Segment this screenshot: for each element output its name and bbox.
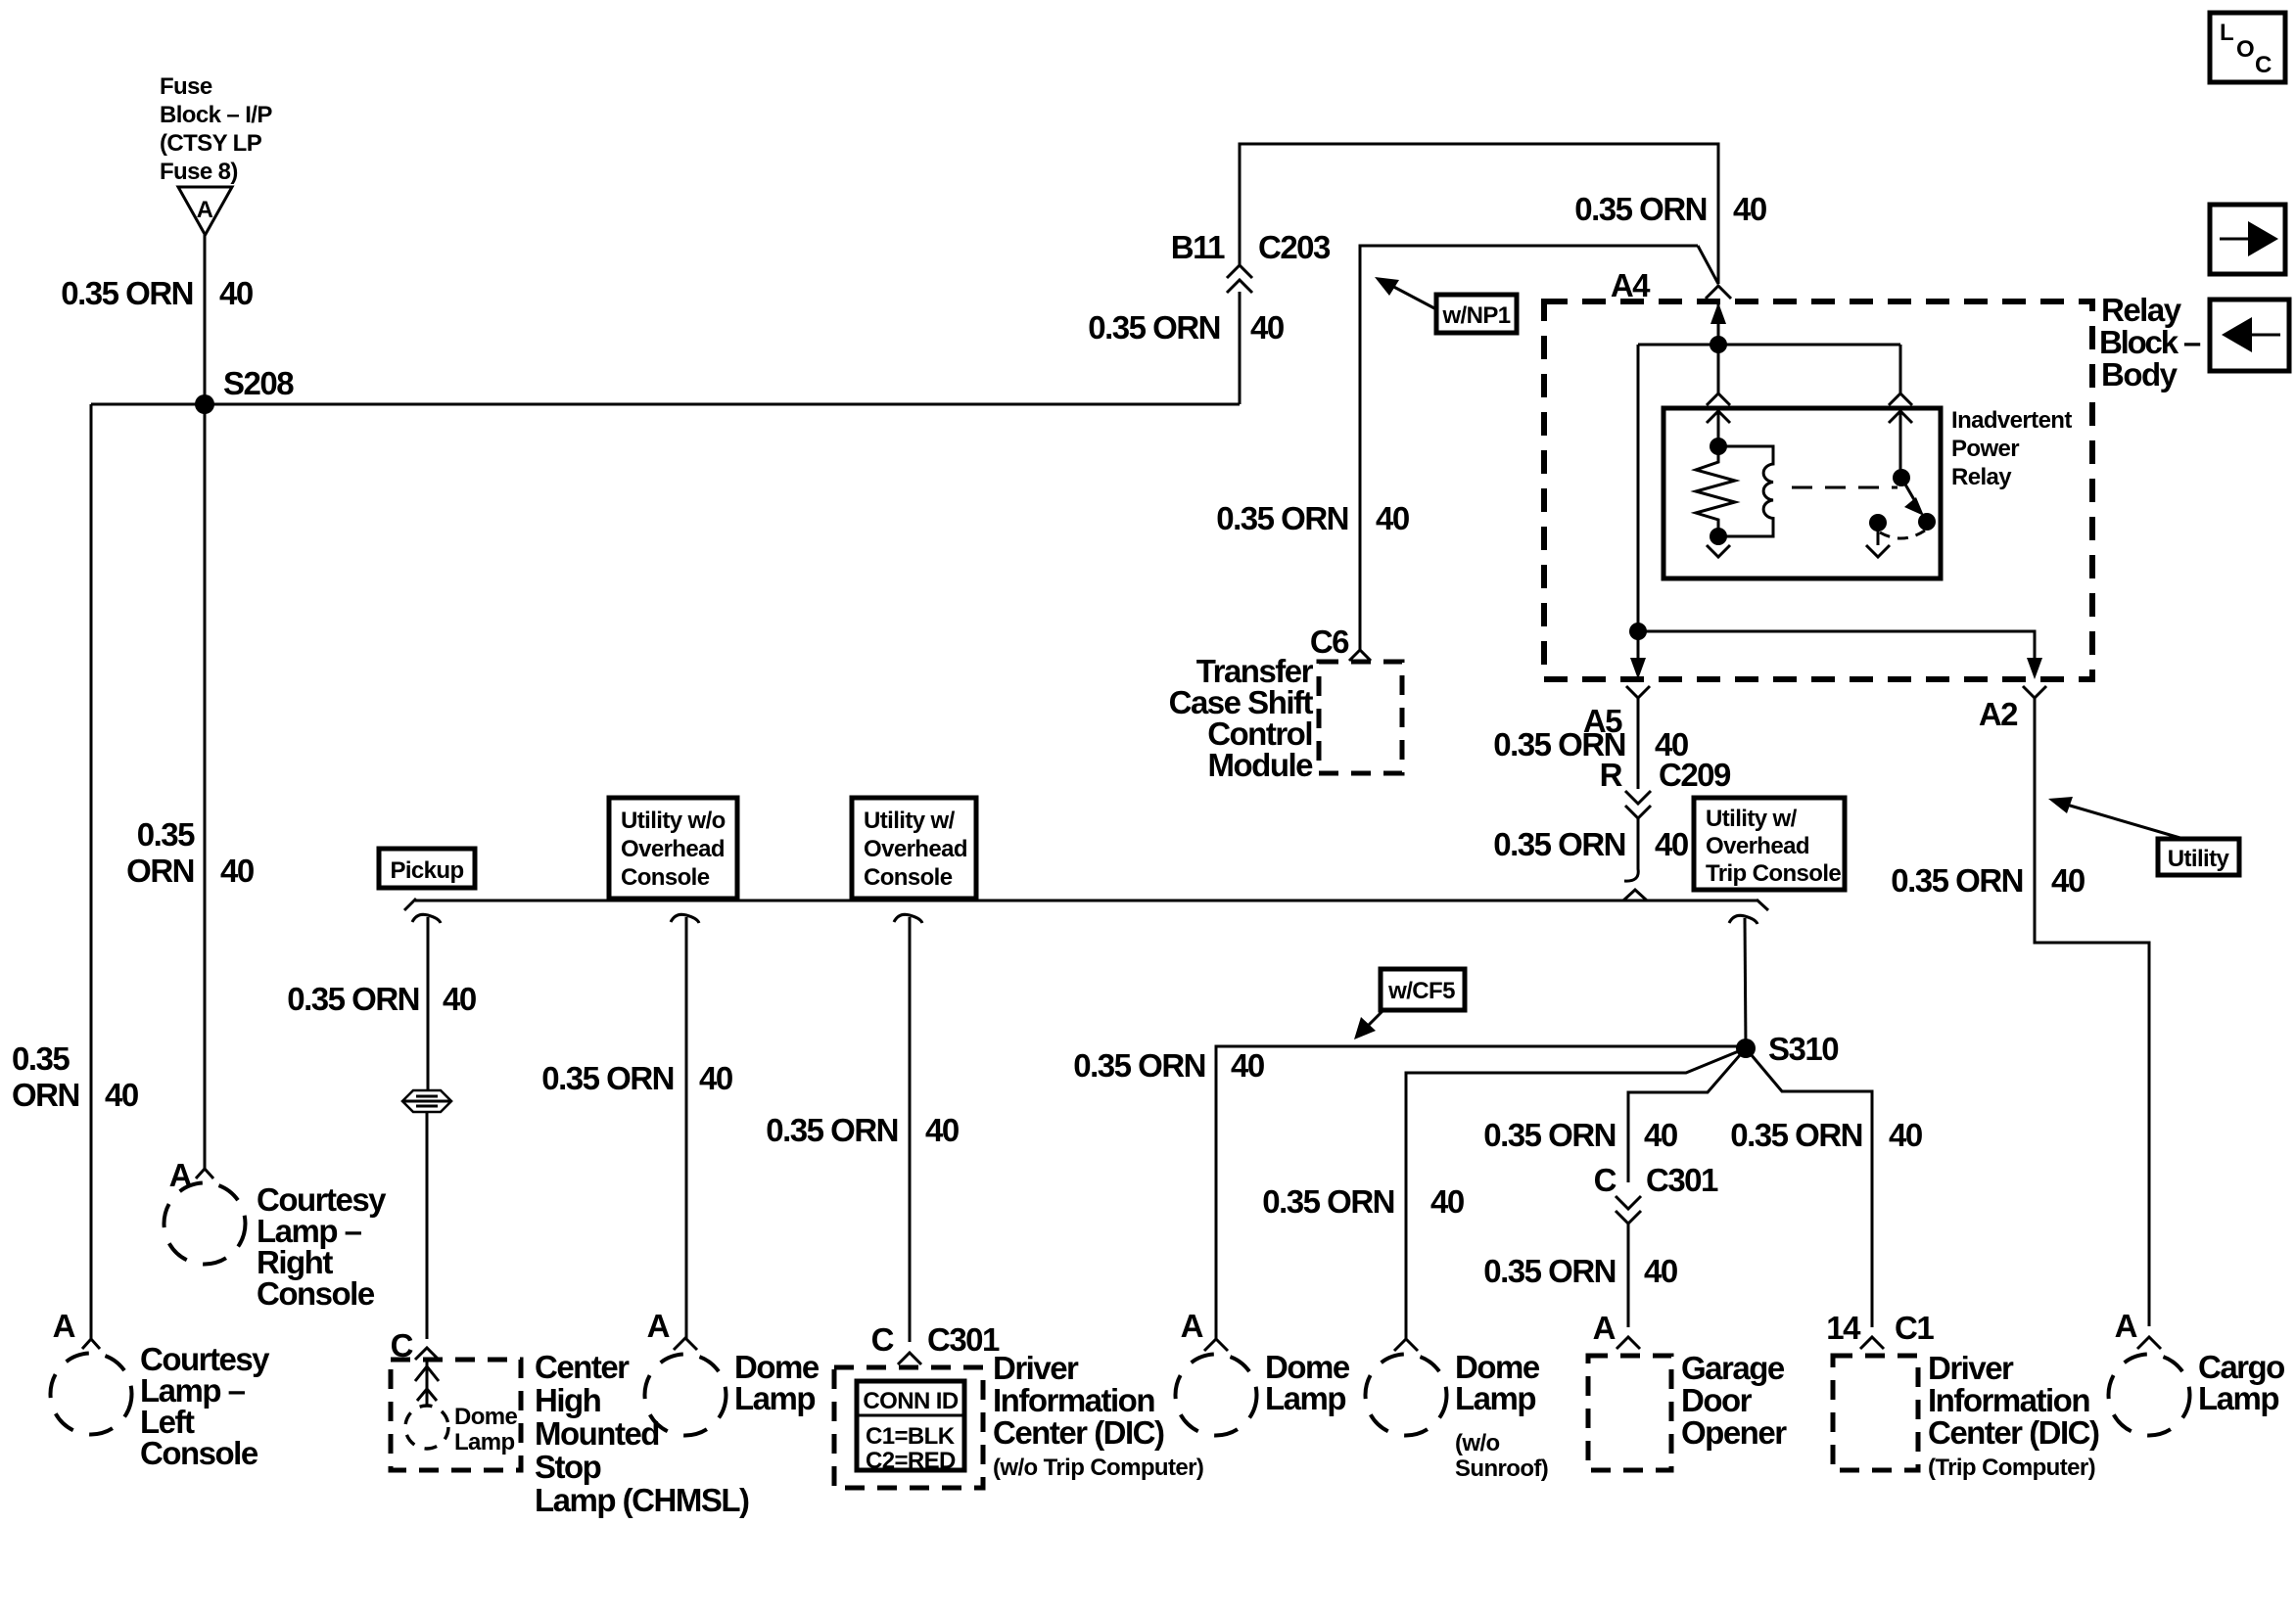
wire relay block internal tee xyxy=(1638,344,1900,346)
svg-text:Module: Module xyxy=(1208,747,1314,783)
splice S208 xyxy=(195,365,294,414)
svg-text:40: 40 xyxy=(925,1112,959,1148)
relay block - body label xyxy=(2099,292,2201,393)
svg-text:0.35: 0.35 xyxy=(12,1040,70,1077)
svg-text:Utility w/o: Utility w/o xyxy=(621,808,726,834)
wire S310 to dome lamp w/o sunroof xyxy=(1406,1048,1746,1339)
svg-text:A2: A2 xyxy=(1979,696,2018,732)
svg-text:Sunroof): Sunroof) xyxy=(1455,1455,1548,1482)
connector chevron dome lamp xyxy=(674,1338,697,1350)
svg-text:C: C xyxy=(1594,1162,1617,1198)
svg-text:40: 40 xyxy=(1231,1047,1264,1084)
wire switch feed down xyxy=(1899,345,1902,394)
svg-text:C1: C1 xyxy=(1895,1310,1934,1346)
label 0.35 ORN 40 (w/CF5 branch) xyxy=(1073,1047,1264,1084)
LOC page symbol box xyxy=(2210,13,2285,82)
wire pickup drop lower xyxy=(426,1112,429,1339)
wire lower junction to A2 drop xyxy=(1638,631,2035,675)
svg-text:Center (DIC): Center (DIC) xyxy=(1928,1414,2099,1451)
label 0.35 ORN 40 (C6 wire) xyxy=(1216,500,1409,536)
svg-text:Information: Information xyxy=(1928,1382,2089,1418)
transfer case shift control module (dashed box) xyxy=(1319,662,1402,773)
wire S208 to courtesy lamp right xyxy=(204,404,207,1169)
garage door opener label xyxy=(1681,1350,1787,1451)
connector C301 (double chevron) xyxy=(1616,1196,1641,1224)
svg-text:40: 40 xyxy=(1376,500,1409,536)
label 0.35 ORN 40 (DIC trip computer branch) xyxy=(1730,1117,1922,1153)
svg-text:Center (DIC): Center (DIC) xyxy=(993,1414,1164,1451)
wire left branch down to lower junction xyxy=(1637,345,1640,631)
svg-text:0.35 ORN: 0.35 ORN xyxy=(287,981,419,1017)
inadvertent power relay (solid box) xyxy=(1663,408,1941,578)
inline splice sleeve symbol xyxy=(402,1090,451,1112)
svg-text:0.35 ORN: 0.35 ORN xyxy=(1483,1117,1616,1153)
svg-text:Dome: Dome xyxy=(454,1404,518,1430)
svg-text:C: C xyxy=(871,1321,894,1358)
transfer case shift control module label xyxy=(1169,653,1314,783)
svg-text:40: 40 xyxy=(219,275,253,311)
svg-text:0.35 ORN: 0.35 ORN xyxy=(1073,1047,1205,1084)
dome lamp 3 label xyxy=(1455,1349,1548,1482)
DIC w/o trip computer dashed box xyxy=(834,1367,983,1488)
w/NP1 callout box xyxy=(1436,295,1517,333)
junction node inside relay block xyxy=(1710,336,1727,353)
courtesy lamp right console label xyxy=(257,1181,387,1312)
svg-text:Information: Information xyxy=(993,1382,1154,1418)
utility w/ overhead trip console box xyxy=(1694,798,1845,890)
svg-text:C: C xyxy=(2255,52,2272,78)
svg-text:40: 40 xyxy=(443,981,476,1017)
svg-text:A: A xyxy=(197,197,213,223)
wire C203 up and across top xyxy=(1240,144,1718,284)
svg-text:Lamp: Lamp xyxy=(1455,1380,1535,1416)
inadvertent power relay label xyxy=(1951,407,2072,490)
svg-text:Overhead: Overhead xyxy=(864,836,967,862)
svg-text:Opener: Opener xyxy=(1681,1414,1787,1451)
wire dome lamp drop xyxy=(685,917,688,1339)
svg-text:Lamp: Lamp xyxy=(1265,1380,1345,1416)
svg-text:S310: S310 xyxy=(1768,1031,1838,1067)
hook pickup drop xyxy=(412,914,441,923)
svg-text:Overhead: Overhead xyxy=(621,836,725,862)
svg-text:(w/o: (w/o xyxy=(1455,1430,1500,1456)
svg-text:High: High xyxy=(535,1382,601,1418)
CHMSL internal lead with chevrons xyxy=(415,1362,439,1407)
label 0.35 ORN 40 (C301 upper) xyxy=(1483,1117,1677,1153)
svg-text:40: 40 xyxy=(220,853,254,889)
splice S310 xyxy=(1736,1031,1838,1067)
relay switch pivot node xyxy=(1893,469,1910,486)
svg-text:0.35 ORN: 0.35 ORN xyxy=(1493,826,1625,862)
label 0.35 ORN 40 (w/o sunroof branch) xyxy=(1262,1183,1464,1220)
connector chevron dome lamp 3 xyxy=(1394,1339,1418,1351)
CHMSL internal dome lamp label xyxy=(454,1404,518,1455)
relay block - body (dashed outline) xyxy=(1544,301,2092,679)
svg-text:40: 40 xyxy=(1430,1183,1464,1220)
DIC trip computer label xyxy=(1928,1350,2099,1481)
wire pickup drop upper xyxy=(427,917,430,1090)
svg-text:Fuse 8): Fuse 8) xyxy=(160,159,238,185)
svg-text:C301: C301 xyxy=(1646,1162,1718,1198)
label 0.35 ORN 40 (S208 lower wire) xyxy=(126,816,254,889)
connector chevron DIC xyxy=(898,1353,921,1364)
w/CF5 pointer arrow xyxy=(1354,1010,1383,1039)
svg-text:Console: Console xyxy=(864,864,953,891)
svg-text:C1=BLK: C1=BLK xyxy=(866,1423,956,1450)
svg-text:40: 40 xyxy=(1644,1253,1677,1289)
courtesy lamp left console label xyxy=(140,1341,270,1471)
svg-text:Block –: Block – xyxy=(2099,324,2201,360)
garage door opener dashed box xyxy=(1588,1356,1671,1470)
connector chevron DIC trip computer xyxy=(1860,1337,1884,1349)
svg-text:ORN: ORN xyxy=(126,853,194,889)
label 0.35 ORN 40 (top right wire) xyxy=(1574,191,1766,227)
connector chevron above relay box left xyxy=(1707,393,1730,405)
svg-text:Mounted: Mounted xyxy=(535,1415,659,1452)
wire S208 horizontal xyxy=(91,403,1240,406)
svg-text:Power: Power xyxy=(1951,436,2019,462)
label 0.35 ORN 40 (pickup drop) xyxy=(287,981,476,1017)
junction node at A5 xyxy=(1629,623,1647,640)
wire A5 to C209 xyxy=(1637,698,1640,789)
relay actuator dashed link xyxy=(1792,486,1898,489)
wire A4 into relay block xyxy=(1717,299,1720,345)
dome lamp label xyxy=(734,1349,820,1416)
pickup option box xyxy=(379,849,475,888)
svg-text:A: A xyxy=(647,1308,670,1344)
svg-text:A: A xyxy=(2115,1308,2137,1344)
svg-text:Garage: Garage xyxy=(1681,1350,1785,1386)
DIC w/o trip computer label xyxy=(993,1350,1203,1481)
svg-text:0.35 ORN: 0.35 ORN xyxy=(1262,1183,1394,1220)
label 0.35 ORN 40 (A5 wire) xyxy=(1493,726,1688,762)
svg-text:40: 40 xyxy=(1733,191,1766,227)
label 0.35 ORN 40 (dome lamp drop) xyxy=(541,1060,732,1096)
svg-text:40: 40 xyxy=(1250,309,1284,346)
svg-text:C301: C301 xyxy=(927,1321,1000,1358)
svg-text:0.35 ORN: 0.35 ORN xyxy=(1730,1117,1862,1153)
CONN ID table xyxy=(857,1381,964,1474)
svg-text:Overhead: Overhead xyxy=(1706,833,1809,859)
svg-text:Console: Console xyxy=(257,1275,375,1312)
hook dome lamp drop xyxy=(671,914,699,923)
svg-text:0.35 ORN: 0.35 ORN xyxy=(541,1060,674,1096)
wire A2 to cargo lamp xyxy=(2035,698,2149,1326)
svg-text:A: A xyxy=(1593,1310,1616,1346)
label 0.35 ORN 40 (DIC drop) xyxy=(766,1112,959,1148)
relay switch throw node xyxy=(1918,513,1936,531)
svg-text:Lamp (CHMSL): Lamp (CHMSL) xyxy=(535,1482,749,1518)
svg-text:0.35 ORN: 0.35 ORN xyxy=(1088,309,1220,346)
harness bus wire xyxy=(415,900,1757,902)
svg-text:Pickup: Pickup xyxy=(390,857,463,884)
connector chevron at courtesy lamp left xyxy=(82,1339,100,1349)
wire S310 to dome lamp A (w/CF5 branch) xyxy=(1216,1046,1746,1339)
connector C209 (double chevron) xyxy=(1625,791,1651,818)
utility callout box xyxy=(2158,839,2239,875)
svg-text:(Trip Computer): (Trip Computer) xyxy=(1928,1455,2095,1481)
dome lamp 2 label xyxy=(1265,1349,1350,1416)
svg-text:CONN ID: CONN ID xyxy=(863,1388,958,1414)
svg-text:A4: A4 xyxy=(1611,267,1651,303)
connector chevron at courtesy lamp right xyxy=(196,1169,213,1178)
svg-text:A: A xyxy=(53,1308,75,1344)
label 0.35 ORN 40 (C301 lower) xyxy=(1483,1253,1677,1289)
utility w/ overhead console option box xyxy=(852,798,976,899)
relay switch contact dashed arc xyxy=(1880,531,1925,538)
svg-text:Relay: Relay xyxy=(2101,292,2182,328)
label 0.35 ORN 40 (fuse wire) xyxy=(61,275,253,311)
wire S208 to courtesy lamp left xyxy=(90,404,93,1339)
relay coil bottom node xyxy=(1710,528,1727,545)
relay switch: common leg with chevron xyxy=(1889,408,1912,477)
svg-text:0.35 ORN: 0.35 ORN xyxy=(61,275,193,311)
svg-text:ORN: ORN xyxy=(12,1077,79,1113)
arrow box left xyxy=(2210,300,2289,371)
svg-text:Console: Console xyxy=(621,864,710,891)
hook S310 riser xyxy=(1729,915,1757,924)
svg-text:Door: Door xyxy=(1681,1382,1753,1418)
svg-text:0.35: 0.35 xyxy=(137,816,195,853)
svg-text:C6: C6 xyxy=(1310,624,1349,660)
connector chevron A2 xyxy=(2023,686,2046,698)
hook DIC drop xyxy=(894,914,922,923)
wire C301 to garage door opener xyxy=(1627,1224,1630,1327)
svg-text:Body: Body xyxy=(2101,356,2179,393)
svg-text:Utility w/: Utility w/ xyxy=(1706,806,1798,832)
dome lamp 2 (dashed circle) xyxy=(1176,1355,1257,1436)
svg-text:Driver: Driver xyxy=(1928,1350,2014,1386)
dome lamp 3 (dashed circle) xyxy=(1366,1355,1447,1436)
svg-text:O: O xyxy=(2236,36,2255,63)
connector chevron garage door opener xyxy=(1617,1337,1640,1349)
bus caret under C209 wire xyxy=(1623,890,1647,901)
svg-text:40: 40 xyxy=(699,1060,732,1096)
relay switch blade with arrowhead xyxy=(1901,478,1924,516)
wire S310 to DIC trip computer xyxy=(1746,1048,1872,1327)
connector chevron dome lamp 2 xyxy=(1204,1339,1228,1351)
resistor R (zigzag) xyxy=(1696,446,1735,536)
svg-text:w/NP1: w/NP1 xyxy=(1441,302,1510,329)
relay coil leg with chevron xyxy=(1707,408,1730,446)
w/NP1 pointer arrow xyxy=(1375,277,1436,309)
relay coil (inductor) xyxy=(1718,446,1773,536)
svg-text:Block – I/P: Block – I/P xyxy=(160,102,272,128)
svg-text:Lamp: Lamp xyxy=(734,1380,815,1416)
fuse block feed symbol A (triangle) xyxy=(178,187,232,235)
svg-text:S208: S208 xyxy=(223,365,294,401)
svg-text:0.35 ORN: 0.35 ORN xyxy=(1483,1253,1616,1289)
CHMSL label xyxy=(535,1349,749,1518)
svg-text:Inadvertent: Inadvertent xyxy=(1951,407,2072,434)
wire riser to B11 xyxy=(1239,292,1242,404)
wire coil feed down xyxy=(1717,345,1720,394)
wire C209 to bus with hook xyxy=(1624,818,1638,881)
wire bus to S310 xyxy=(1745,918,1746,1048)
CHMSL internal dome lamp (small dashed circle) xyxy=(405,1406,448,1449)
svg-text:Stop: Stop xyxy=(535,1449,601,1485)
svg-text:40: 40 xyxy=(1655,826,1688,862)
svg-text:C203: C203 xyxy=(1258,229,1331,265)
svg-text:40: 40 xyxy=(1889,1117,1922,1153)
connector chevron CHMSL xyxy=(415,1348,439,1360)
courtesy lamp left console (dashed circle) xyxy=(51,1354,132,1435)
arrowhead down at A2 border crossing xyxy=(2027,658,2042,679)
svg-text:0.35 ORN: 0.35 ORN xyxy=(1891,862,2023,899)
label 0.35 ORN 40 (C209 wire) xyxy=(1493,826,1688,862)
fuse block label xyxy=(160,73,272,185)
svg-text:14: 14 xyxy=(1826,1310,1861,1346)
relay coil top node xyxy=(1710,438,1727,455)
svg-text:Utility: Utility xyxy=(2168,846,2230,872)
svg-text:R: R xyxy=(1600,757,1623,793)
w/CF5 callout box xyxy=(1381,969,1465,1010)
wire C203 branch to C6 xyxy=(1360,246,1698,650)
svg-text:Utility w/: Utility w/ xyxy=(864,808,956,834)
utility pointer arrow xyxy=(2048,797,2183,839)
svg-text:40: 40 xyxy=(105,1077,138,1113)
svg-text:Relay: Relay xyxy=(1951,464,2012,490)
svg-text:Lamp: Lamp xyxy=(2198,1380,2278,1416)
arrow box right xyxy=(2210,205,2285,274)
svg-text:0.35 ORN: 0.35 ORN xyxy=(1574,191,1707,227)
svg-text:Console: Console xyxy=(140,1435,258,1471)
svg-text:Center: Center xyxy=(535,1349,630,1385)
wire diagonal jog into A4 xyxy=(1698,246,1718,284)
relay switch output leg with chevron xyxy=(1866,523,1890,557)
dome lamp (dashed circle) xyxy=(645,1355,726,1436)
svg-text:40: 40 xyxy=(2051,862,2085,899)
CHMSL dashed box xyxy=(391,1360,521,1470)
DIC trip computer dashed box xyxy=(1833,1356,1918,1470)
svg-text:Lamp: Lamp xyxy=(454,1429,515,1455)
wire A5 drop with arrowhead xyxy=(1630,631,1646,679)
utility w/o overhead console option box xyxy=(609,798,737,899)
svg-text:(CTSY LP: (CTSY LP xyxy=(160,130,262,157)
svg-text:Trip Console: Trip Console xyxy=(1706,860,1841,887)
svg-text:(w/o Trip Computer): (w/o Trip Computer) xyxy=(993,1455,1203,1481)
svg-text:C209: C209 xyxy=(1659,757,1731,793)
label 0.35 ORN 40 (B11 riser) xyxy=(1088,309,1284,346)
svg-text:0.35 ORN: 0.35 ORN xyxy=(766,1112,898,1148)
svg-text:L: L xyxy=(2220,20,2234,46)
relay coil leg: bottom chevron xyxy=(1707,536,1730,557)
svg-text:A: A xyxy=(1181,1308,1203,1344)
connector B11 C203 (double chevron) xyxy=(1171,229,1331,293)
connector chevron C6 xyxy=(1349,650,1371,661)
svg-text:w/CF5: w/CF5 xyxy=(1387,978,1455,1004)
label 0.35 ORN 40 (A2 wire) xyxy=(1891,862,2085,899)
svg-text:C2=RED: C2=RED xyxy=(866,1448,956,1474)
svg-text:40: 40 xyxy=(1644,1117,1677,1153)
svg-text:B11: B11 xyxy=(1171,229,1225,265)
connector chevron above relay box right xyxy=(1889,393,1912,405)
cargo lamp (dashed circle) xyxy=(2109,1355,2190,1436)
svg-text:0.35 ORN: 0.35 ORN xyxy=(1216,500,1348,536)
label 0.35 ORN 40 (left wire) xyxy=(12,1040,138,1113)
svg-text:Fuse: Fuse xyxy=(160,73,212,100)
svg-text:Driver: Driver xyxy=(993,1350,1079,1386)
connector chevron A4 xyxy=(1706,286,1731,299)
arrowhead up at A4 border crossing xyxy=(1710,302,1726,324)
wire DIC drop xyxy=(909,917,912,1342)
connector chevron cargo lamp xyxy=(2137,1337,2161,1349)
courtesy lamp right console (dashed circle) xyxy=(164,1183,246,1265)
connector chevron A5 xyxy=(1626,686,1650,698)
wire fuse to S208 xyxy=(204,235,207,404)
wire S310 to C301 garage door opener xyxy=(1628,1048,1746,1182)
relay switch contact node xyxy=(1869,514,1887,531)
cargo lamp label xyxy=(2198,1349,2284,1416)
